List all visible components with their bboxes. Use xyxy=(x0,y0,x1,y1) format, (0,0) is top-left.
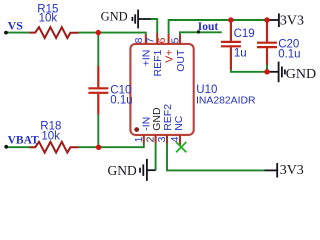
svg-text:10k: 10k xyxy=(39,12,58,24)
svg-text:GND: GND xyxy=(286,67,316,82)
svg-text:7: 7 xyxy=(146,37,157,43)
svg-text:GND: GND xyxy=(108,163,137,178)
svg-text:1u: 1u xyxy=(234,48,247,60)
svg-text:3V3: 3V3 xyxy=(280,13,304,28)
svg-text:U10: U10 xyxy=(196,84,217,96)
svg-text:NC: NC xyxy=(173,115,185,131)
svg-text:3: 3 xyxy=(157,136,168,142)
svg-text:V+: V+ xyxy=(164,50,176,63)
svg-text:0.1u: 0.1u xyxy=(278,48,300,60)
svg-text:C19: C19 xyxy=(234,28,255,40)
svg-text:6: 6 xyxy=(157,37,168,43)
svg-text:5: 5 xyxy=(170,37,181,43)
svg-text:INA282AIDR: INA282AIDR xyxy=(196,96,256,107)
svg-text:1: 1 xyxy=(134,136,145,142)
svg-text:2: 2 xyxy=(146,136,157,142)
svg-text:8: 8 xyxy=(134,37,145,43)
svg-text:0.1u: 0.1u xyxy=(110,95,132,107)
svg-text:OUT: OUT xyxy=(175,49,187,72)
svg-text:VBAT: VBAT xyxy=(8,135,39,147)
svg-text:GND: GND xyxy=(101,9,128,23)
svg-text:REF1: REF1 xyxy=(152,49,164,76)
svg-text:VS: VS xyxy=(8,19,24,33)
svg-text:10k: 10k xyxy=(41,130,60,142)
svg-text:+IN: +IN xyxy=(141,50,153,67)
svg-text:3V3: 3V3 xyxy=(280,163,304,178)
svg-text:Iout: Iout xyxy=(198,21,219,33)
svg-text:4: 4 xyxy=(170,136,181,142)
